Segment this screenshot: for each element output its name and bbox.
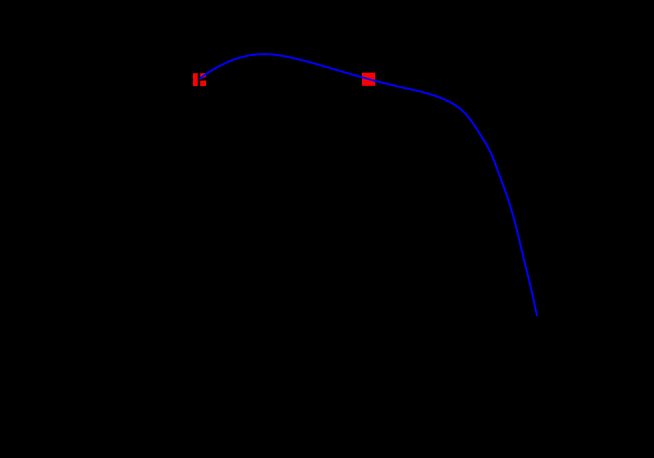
fitted curve (blue) (199, 54, 537, 316)
black diagonal segment over marker 1 (199, 77, 206, 81)
data point marker 2 (red square) (362, 73, 375, 86)
error bar through marker 1 (black vertical) (198, 72, 200, 89)
data point marker 1 (red square) (193, 73, 206, 86)
